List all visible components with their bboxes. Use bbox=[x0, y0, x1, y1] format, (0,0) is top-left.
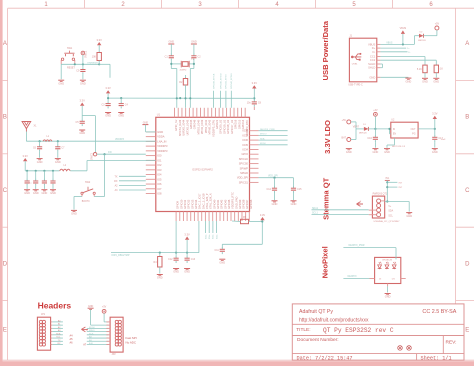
svg-text:GND: GND bbox=[384, 150, 390, 154]
svg-text:DAC_1_IO17: DAC_1_IO17 bbox=[198, 193, 202, 209]
svg-text:SDA: SDA bbox=[388, 210, 393, 213]
svg-text:VBUS: VBUS bbox=[386, 42, 393, 44]
svg-text:+5V: +5V bbox=[342, 119, 347, 122]
svg-text:RESET: RESET bbox=[67, 67, 76, 70]
svg-text:SPIHD: SPIHD bbox=[240, 171, 248, 175]
svg-text:GND: GND bbox=[143, 121, 149, 124]
svg-text:U1: U1 bbox=[157, 113, 161, 117]
svg-text:GPIO14: GPIO14 bbox=[241, 119, 245, 129]
svg-text:GPIO39_MTCK: GPIO39_MTCK bbox=[213, 73, 215, 89]
svg-text:MBR120: MBR120 bbox=[359, 133, 368, 135]
svg-text:EN/RESET: EN/RESET bbox=[88, 62, 100, 64]
svg-text:JP2: JP2 bbox=[112, 353, 117, 356]
svg-text:Adafruit QT Py: Adafruit QT Py bbox=[299, 309, 333, 315]
svg-text:GND: GND bbox=[50, 191, 56, 195]
svg-text:MOSI: MOSI bbox=[260, 143, 266, 145]
svg-text:SDA1: SDA1 bbox=[312, 207, 319, 210]
svg-text:OUT: OUT bbox=[411, 129, 416, 131]
svg-text:C16: C16 bbox=[367, 137, 372, 140]
svg-text:NEOPIX: NEOPIX bbox=[348, 275, 357, 278]
svg-text:IO2: IO2 bbox=[157, 163, 162, 167]
svg-text:GND: GND bbox=[291, 202, 297, 206]
svg-text:GPIO16: GPIO16 bbox=[234, 119, 238, 129]
svg-text:IO7: IO7 bbox=[157, 187, 162, 191]
svg-text:Date: 7/2/22 15:47: Date: 7/2/22 15:47 bbox=[297, 355, 353, 361]
svg-text:GND_PAD: GND_PAD bbox=[234, 197, 238, 209]
svg-text:GND: GND bbox=[169, 41, 175, 44]
svg-text:GPIO45: GPIO45 bbox=[223, 199, 227, 209]
svg-text:GND: GND bbox=[157, 276, 163, 280]
svg-text:GND: GND bbox=[37, 160, 43, 164]
svg-text:3.3V: 3.3V bbox=[105, 86, 111, 90]
svg-text:GND: GND bbox=[346, 150, 352, 154]
svg-text:PWR3V3 QT1: PWR3V3 QT1 bbox=[373, 194, 388, 196]
svg-text:GND: GND bbox=[105, 114, 111, 118]
svg-text:GND: GND bbox=[71, 212, 77, 216]
svg-text:GPIO46: GPIO46 bbox=[227, 199, 231, 209]
svg-text:SW2: SW2 bbox=[85, 181, 91, 184]
svg-text:VDD3P3_RTC: VDD3P3_RTC bbox=[231, 192, 235, 209]
svg-text:VDD3P3: VDD3P3 bbox=[157, 144, 168, 148]
svg-text:GPIO40_MTDO: GPIO40_MTDO bbox=[220, 73, 222, 89]
svg-text:GND: GND bbox=[406, 214, 412, 218]
svg-text:GPIO10: GPIO10 bbox=[179, 199, 183, 209]
svg-text:IO36: IO36 bbox=[242, 138, 248, 142]
svg-text:GND: GND bbox=[80, 81, 86, 85]
svg-text:3.3V LDO: 3.3V LDO bbox=[323, 120, 332, 154]
svg-text:IO35: IO35 bbox=[242, 143, 248, 147]
svg-text:D: D bbox=[3, 262, 8, 268]
svg-text:3.3V: 3.3V bbox=[23, 154, 29, 158]
svg-text:10K: 10K bbox=[92, 56, 97, 59]
svg-text:3.3V: 3.3V bbox=[260, 213, 266, 217]
svg-text:CC 2.5 BY-SA: CC 2.5 BY-SA bbox=[422, 309, 456, 315]
svg-text:D-: D- bbox=[408, 52, 411, 54]
svg-text:SWC2: SWC2 bbox=[90, 152, 93, 160]
svg-text:CC2: CC2 bbox=[370, 58, 376, 62]
svg-text:GPIO37: GPIO37 bbox=[245, 199, 249, 209]
svg-text:SW1: SW1 bbox=[67, 47, 73, 50]
svg-text:GND: GND bbox=[433, 80, 439, 84]
svg-text:GPIO21: GPIO21 bbox=[215, 119, 219, 129]
svg-text:TX: TX bbox=[114, 175, 117, 178]
svg-text:GPIO9: GPIO9 bbox=[176, 201, 180, 209]
svg-text:5.1K: 5.1K bbox=[438, 68, 443, 71]
svg-text:SPICS1: SPICS1 bbox=[239, 180, 249, 184]
svg-text:SCL1: SCL1 bbox=[312, 212, 318, 214]
svg-text:GPIO40: GPIO40 bbox=[212, 199, 216, 209]
svg-text:+5V: +5V bbox=[102, 306, 107, 309]
svg-text:3.3V: 3.3V bbox=[97, 38, 103, 42]
svg-text:GND: GND bbox=[58, 81, 64, 85]
svg-text:AP2112K-3.3: AP2112K-3.3 bbox=[392, 145, 406, 148]
svg-text:D+: D+ bbox=[372, 46, 376, 50]
svg-text:GND: GND bbox=[55, 160, 61, 164]
svg-text:TITLE:: TITLE: bbox=[296, 327, 310, 333]
svg-text:Sheet: 1/1: Sheet: 1/1 bbox=[421, 355, 452, 361]
svg-text:SCK: SCK bbox=[89, 333, 94, 335]
svg-text:GND: GND bbox=[191, 41, 197, 44]
svg-text:B: B bbox=[465, 115, 469, 121]
svg-text:C14: C14 bbox=[267, 188, 272, 191]
svg-text:REV:: REV: bbox=[446, 340, 457, 346]
svg-text:3.3V: 3.3V bbox=[432, 112, 438, 116]
svg-text:GPIO13: GPIO13 bbox=[190, 199, 194, 209]
svg-text:IO3: IO3 bbox=[157, 168, 162, 172]
svg-text:GND: GND bbox=[42, 191, 48, 195]
svg-text:PG: PG bbox=[412, 134, 416, 136]
svg-text:GPIO38: GPIO38 bbox=[242, 199, 246, 209]
svg-text:VDD3P3_CPU: VDD3P3_CPU bbox=[211, 120, 215, 137]
svg-text:http://adafruit.com/products/x: http://adafruit.com/products/xxx bbox=[299, 318, 369, 324]
svg-text:SPICS1_RAM: SPICS1_RAM bbox=[178, 120, 182, 136]
svg-text:VDD3P3: VDD3P3 bbox=[115, 139, 125, 141]
svg-text:GND: GND bbox=[173, 270, 179, 274]
svg-text:10u: 10u bbox=[247, 102, 252, 105]
svg-text:SWC1: SWC1 bbox=[84, 50, 87, 58]
svg-text:5.1K: 5.1K bbox=[417, 68, 422, 71]
svg-text:40MHz: 40MHz bbox=[180, 69, 187, 71]
svg-text:GPIO15: GPIO15 bbox=[237, 119, 241, 129]
svg-text:MTDO_IO40: MTDO_IO40 bbox=[196, 119, 200, 134]
svg-text:VDD3P3: VDD3P3 bbox=[157, 149, 168, 153]
svg-text:DAC_2_IO18: DAC_2_IO18 bbox=[201, 193, 205, 209]
svg-text:A: A bbox=[3, 41, 7, 47]
svg-text:VBUS: VBUS bbox=[368, 42, 376, 46]
svg-text:SDA: SDA bbox=[260, 137, 265, 140]
svg-text:MTDO: MTDO bbox=[260, 134, 267, 136]
svg-text:A: A bbox=[465, 41, 469, 47]
svg-text:GND: GND bbox=[79, 131, 85, 135]
svg-text:SDA: SDA bbox=[56, 332, 61, 335]
svg-text:GPIO17_U1: GPIO17_U1 bbox=[230, 119, 234, 134]
svg-text:GPIO45: GPIO45 bbox=[189, 119, 193, 129]
svg-text:GPIO19_U1: GPIO19_U1 bbox=[222, 119, 226, 134]
svg-text:MISO: MISO bbox=[89, 330, 95, 332]
svg-text:BAT: BAT bbox=[342, 137, 347, 140]
svg-text:U0TXD_IO43: U0TXD_IO43 bbox=[185, 119, 189, 135]
svg-text:XTAL_32K_P: XTAL_32K_P bbox=[205, 193, 209, 209]
svg-text:EN: EN bbox=[393, 134, 397, 136]
svg-text:GPIO: GPIO bbox=[242, 152, 249, 156]
svg-text:U0RXD_IO44: U0RXD_IO44 bbox=[182, 119, 186, 135]
svg-text:3.3V: 3.3V bbox=[80, 98, 86, 102]
svg-text:C12: C12 bbox=[168, 258, 173, 261]
svg-text:USB Power/Data: USB Power/Data bbox=[321, 20, 330, 80]
svg-text:C: C bbox=[465, 188, 470, 194]
svg-text:IO45_DBG/TMP: IO45_DBG/TMP bbox=[111, 254, 130, 257]
svg-text:GND: GND bbox=[406, 79, 412, 83]
svg-text:GPIO18_U1: GPIO18_U1 bbox=[226, 119, 230, 134]
svg-text:GND: GND bbox=[24, 191, 30, 195]
svg-text:D-: D- bbox=[372, 50, 375, 54]
svg-text:IO8: IO8 bbox=[157, 192, 162, 196]
svg-text:3V1: 3V1 bbox=[385, 178, 390, 180]
svg-text:CC1: CC1 bbox=[370, 55, 376, 59]
svg-text:GPIO14: GPIO14 bbox=[194, 199, 198, 209]
svg-text:RX: RX bbox=[57, 343, 61, 345]
svg-text:GPIO11: GPIO11 bbox=[183, 199, 187, 209]
svg-text:USB-TYPE-C: USB-TYPE-C bbox=[348, 83, 363, 86]
svg-text:RX: RX bbox=[114, 180, 118, 183]
svg-text:MBR120: MBR120 bbox=[418, 40, 427, 42]
svg-text:C: C bbox=[3, 188, 8, 194]
svg-text:WS2812B: WS2812B bbox=[382, 259, 392, 261]
svg-text:QT Py ESP32S2 rev C: QT Py ESP32S2 rev C bbox=[323, 327, 394, 334]
svg-text:C13: C13 bbox=[191, 258, 196, 261]
svg-text:3.3V: 3.3V bbox=[184, 232, 190, 236]
svg-text:VDD3P3_RTC: VDD3P3_RTC bbox=[245, 120, 249, 137]
svg-text:GND: GND bbox=[219, 260, 225, 264]
svg-text:GPIO39: GPIO39 bbox=[238, 199, 242, 209]
svg-text:GPIO41: GPIO41 bbox=[216, 199, 220, 209]
svg-text:MTMS_IO42: MTMS_IO42 bbox=[208, 119, 212, 134]
svg-text:GND: GND bbox=[184, 270, 190, 274]
svg-text:GPIO42_MTMS: GPIO42_MTMS bbox=[231, 73, 233, 89]
svg-text:IO34: IO34 bbox=[242, 148, 248, 152]
svg-text:NeoPixel: NeoPixel bbox=[321, 246, 330, 278]
svg-text:IO0: IO0 bbox=[157, 154, 162, 158]
svg-text:LNA_IN: LNA_IN bbox=[157, 139, 166, 143]
svg-text:BOOT0: BOOT0 bbox=[82, 201, 91, 203]
svg-text:GPIO46: GPIO46 bbox=[193, 119, 197, 129]
svg-text:GND: GND bbox=[432, 150, 438, 154]
svg-text:SPICLK: SPICLK bbox=[239, 157, 248, 161]
svg-text:VBUS: VBUS bbox=[400, 27, 407, 30]
svg-text:GND: GND bbox=[88, 305, 94, 308]
svg-text:VDD_SPI: VDD_SPI bbox=[268, 176, 278, 178]
svg-text:3.3V: 3.3V bbox=[252, 81, 258, 85]
svg-text:Stemma QT: Stemma QT bbox=[322, 177, 331, 220]
svg-text:GND: GND bbox=[272, 202, 278, 206]
svg-text:GPIO42: GPIO42 bbox=[220, 199, 224, 209]
svg-text:GND: GND bbox=[157, 130, 163, 134]
svg-text:E: E bbox=[3, 328, 7, 334]
svg-text:MTDI_IO41: MTDI_IO41 bbox=[204, 119, 208, 133]
svg-text:IO6: IO6 bbox=[157, 182, 162, 186]
svg-text:SHLD: SHLD bbox=[368, 62, 375, 66]
svg-text:MOSI: MOSI bbox=[89, 327, 95, 329]
svg-text:IO1: IO1 bbox=[157, 158, 162, 162]
svg-text:VDD_SPI: VDD_SPI bbox=[237, 176, 248, 180]
svg-text:GPIO36: GPIO36 bbox=[249, 199, 253, 209]
svg-text:1u: 1u bbox=[29, 183, 31, 185]
svg-text:GPIO12: GPIO12 bbox=[187, 199, 191, 209]
svg-text:SPICS0: SPICS0 bbox=[239, 162, 249, 166]
svg-text:ESP32-S2FN4R2: ESP32-S2FN4R2 bbox=[192, 168, 213, 172]
svg-text:USB1: USB1 bbox=[352, 63, 358, 65]
svg-text:C11: C11 bbox=[214, 249, 219, 252]
svg-text:C15: C15 bbox=[297, 188, 302, 191]
svg-text:DO: DO bbox=[392, 278, 396, 280]
svg-text:+3V: +3V bbox=[373, 109, 378, 112]
svg-text:NEOPIX_PWR: NEOPIX_PWR bbox=[260, 129, 275, 131]
svg-text:GND: GND bbox=[385, 295, 391, 299]
svg-text:XTAL_32K_N: XTAL_32K_N bbox=[209, 193, 213, 209]
svg-text:IO4: IO4 bbox=[157, 173, 162, 177]
svg-text:Fast SPI: Fast SPI bbox=[126, 336, 137, 340]
svg-text:IN: IN bbox=[393, 129, 396, 131]
svg-text:GND: GND bbox=[33, 191, 39, 195]
svg-text:GPIO_7w: GPIO_7w bbox=[174, 120, 178, 131]
svg-text:D: D bbox=[465, 262, 470, 268]
svg-text:STEMMA_I2C_QT3VINNY: STEMMA_I2C_QT3VINNY bbox=[373, 220, 400, 223]
svg-text:GND: GND bbox=[422, 80, 428, 84]
svg-text:GPIO41_MTDI: GPIO41_MTDI bbox=[226, 74, 228, 89]
svg-text:VDDA: VDDA bbox=[157, 135, 164, 139]
svg-text:Document Number:: Document Number: bbox=[297, 337, 339, 343]
svg-text:SHLD: SHLD bbox=[368, 66, 375, 70]
svg-text:NEOPIX_PWR: NEOPIX_PWR bbox=[349, 244, 365, 247]
svg-text:MTCK_IO39: MTCK_IO39 bbox=[200, 119, 204, 134]
svg-text:GND: GND bbox=[118, 114, 124, 118]
svg-text:GND: GND bbox=[373, 150, 379, 154]
svg-text:+5V: +5V bbox=[435, 23, 440, 26]
svg-text:IO5: IO5 bbox=[157, 177, 162, 181]
svg-text:E: E bbox=[465, 328, 469, 334]
svg-text:JP1: JP1 bbox=[41, 313, 46, 316]
svg-text:SCL: SCL bbox=[388, 215, 393, 217]
svg-text:No ADC: No ADC bbox=[126, 341, 136, 345]
svg-text:GND: GND bbox=[369, 75, 375, 79]
svg-text:GPIO20_U1: GPIO20_U1 bbox=[219, 119, 223, 134]
svg-text:10uF: 10uF bbox=[441, 139, 447, 141]
svg-text:B: B bbox=[3, 115, 7, 121]
svg-text:Headers: Headers bbox=[38, 301, 72, 311]
svg-text:SPIWP: SPIWP bbox=[240, 166, 249, 170]
